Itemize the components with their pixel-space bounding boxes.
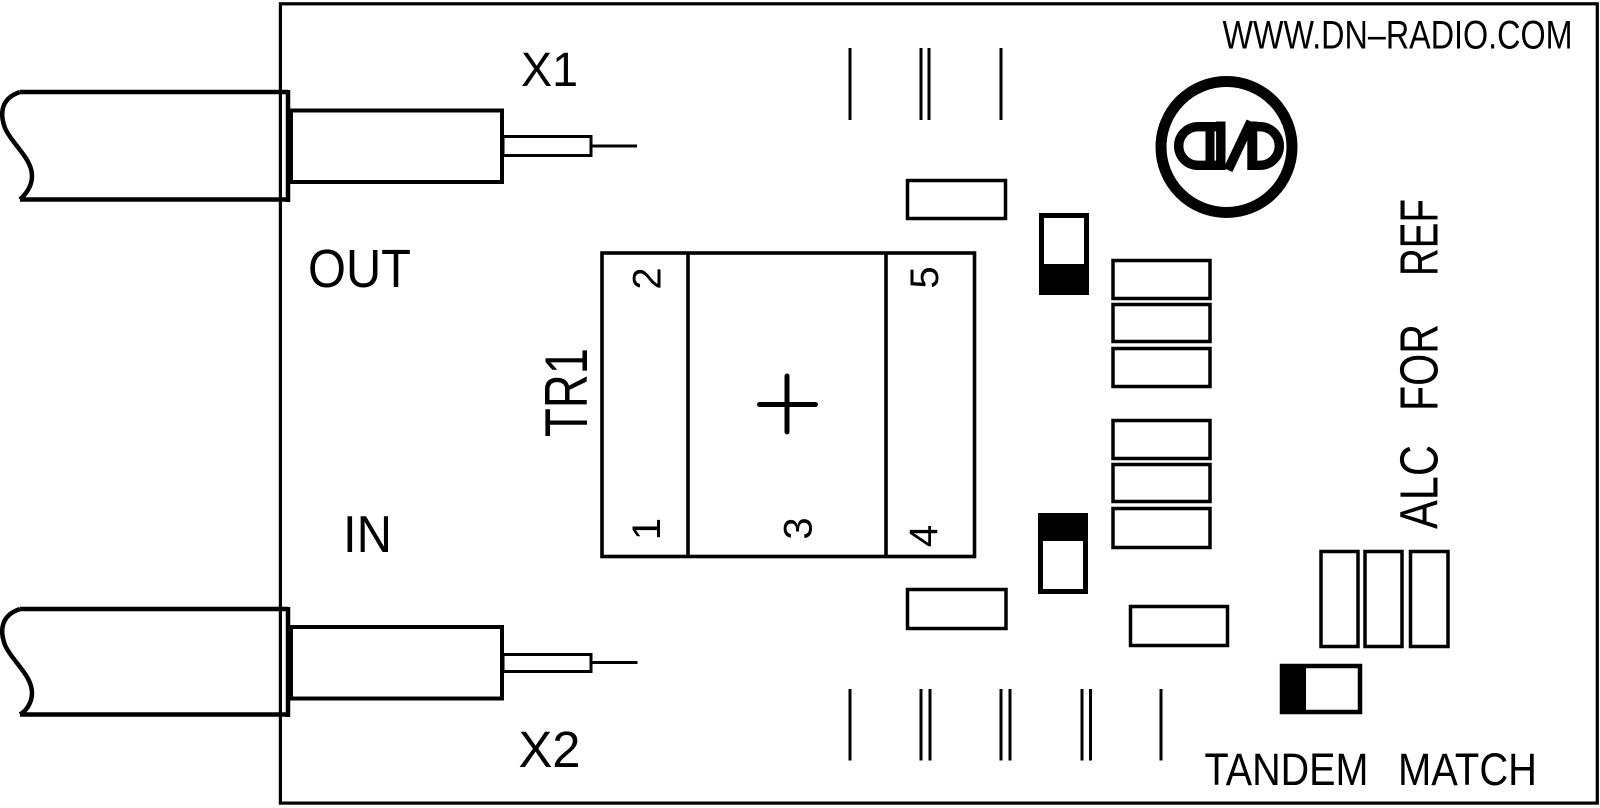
svg-text:5: 5 [903,266,947,288]
logo N glyph [1221,122,1253,171]
resistor network pad 2 [1365,552,1402,647]
resistor R2 [1113,305,1210,342]
resistor R1 [1113,261,1210,299]
TR1 divider left [686,253,690,557]
transformer TR1 body [602,253,975,557]
svg-text:2: 2 [626,267,670,289]
bottom fiducial tick 6 [1081,689,1084,761]
bottom fiducial tick 1 [849,689,852,761]
resistor R3 [1113,349,1210,387]
svg-text:FOR: FOR [1390,324,1450,411]
pad A [908,181,1006,219]
top fiducial tick 4 [1000,48,1003,120]
resistor R4 [1113,421,1210,459]
TR1 divider right [884,253,888,557]
bottom fiducial tick 4 [1000,689,1003,761]
svg-text:REF: REF [1390,199,1450,276]
bottom fiducial tick 8 [1160,689,1163,761]
logo D-right glyph [1250,127,1279,166]
capacitor C1 [1042,216,1087,293]
logo ring [1161,82,1292,213]
TR1 center cross [760,376,816,432]
connector X1 pin [503,137,591,156]
top fiducial tick 1 [849,48,852,120]
svg-text:ALC: ALC [1390,445,1450,529]
pad B [908,590,1007,629]
resistor R6 [1113,509,1210,548]
diode D1 [1282,666,1360,712]
connector X1 flange [286,90,291,202]
connector X2 wire [591,661,638,664]
svg-text:X2: X2 [519,721,581,778]
connector X2 flange [286,607,291,717]
pad C [1131,607,1228,646]
connector X2 coax cable [2,609,288,715]
connector X1 coax cable [2,92,288,200]
bottom fiducial tick 2 [920,689,923,761]
resistor network pad 1 [1321,552,1358,647]
svg-text:OUT: OUT [308,239,411,299]
svg-text:1: 1 [625,518,669,540]
bottom fiducial tick 7 [1089,689,1092,761]
svg-text:4: 4 [902,525,946,547]
connector X1 body [291,111,502,183]
svg-text:TR1: TR1 [533,348,600,437]
bottom fiducial tick 3 [929,689,932,761]
svg-text:3: 3 [777,517,821,539]
bottom fiducial tick 5 [1009,689,1012,761]
logo D-left glyph [1179,122,1218,170]
svg-text:TANDEM: TANDEM [1205,744,1369,795]
resistor network pad 3 [1411,552,1449,647]
top fiducial tick 3 [928,48,931,120]
connector X2 body [291,627,502,699]
resistor R5 [1113,465,1210,502]
top fiducial tick 2 [920,48,923,120]
svg-text:IN: IN [343,506,392,564]
connector X2 pin [503,655,591,672]
connector X1 wire [591,145,637,148]
capacitor C2 [1041,516,1086,592]
svg-text:X1: X1 [521,44,578,97]
svg-text:MATCH: MATCH [1398,744,1537,795]
svg-text:WWW.DN–RADIO.COM: WWW.DN–RADIO.COM [1223,14,1573,58]
